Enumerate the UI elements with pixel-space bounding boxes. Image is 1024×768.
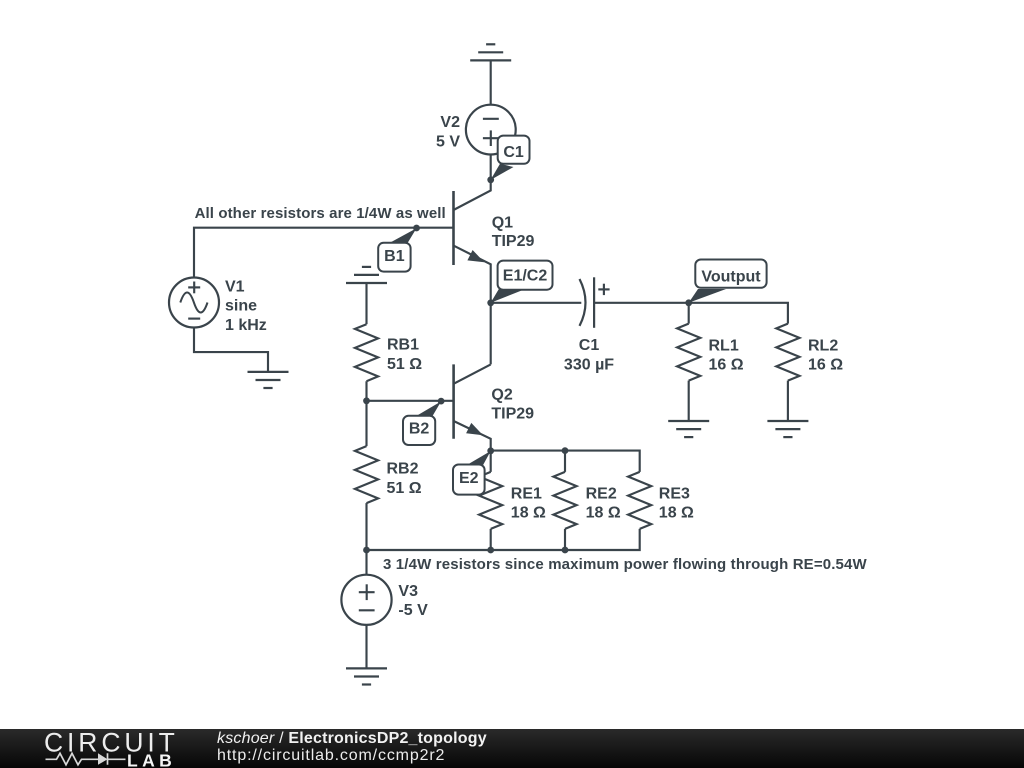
svg-text:3 1/4W resistors since maximum: 3 1/4W resistors since maximum power flo… <box>383 556 868 573</box>
svg-text:330 µF: 330 µF <box>564 356 614 373</box>
svg-text:RB1: RB1 <box>387 337 419 354</box>
svg-text:1 kHz: 1 kHz <box>225 317 267 334</box>
svg-text:RE3: RE3 <box>659 485 690 502</box>
svg-text:16 Ω: 16 Ω <box>709 357 744 374</box>
svg-text:LAB: LAB <box>127 751 176 768</box>
svg-text:Q2: Q2 <box>491 386 512 403</box>
svg-text:16 Ω: 16 Ω <box>808 357 843 374</box>
svg-text:C1: C1 <box>579 337 600 354</box>
svg-text:18 Ω: 18 Ω <box>586 505 621 522</box>
svg-text:sine: sine <box>225 298 257 315</box>
svg-text:5 V: 5 V <box>436 133 460 150</box>
svg-text:B2: B2 <box>409 421 430 438</box>
svg-text:18 Ω: 18 Ω <box>659 505 694 522</box>
svg-text:B1: B1 <box>384 248 405 265</box>
svg-text:51 Ω: 51 Ω <box>387 356 422 373</box>
svg-text:18 Ω: 18 Ω <box>511 505 546 522</box>
svg-text:E2: E2 <box>459 470 479 487</box>
svg-text:V1: V1 <box>225 279 245 296</box>
svg-text:V3: V3 <box>398 583 418 600</box>
svg-text:All other resistors are 1/4W a: All other resistors are 1/4W as well <box>195 205 446 222</box>
svg-text:RL2: RL2 <box>808 337 838 354</box>
svg-text:RE1: RE1 <box>511 485 542 502</box>
svg-text:C1: C1 <box>503 144 524 161</box>
svg-text:V2: V2 <box>440 114 460 131</box>
svg-text:RB2: RB2 <box>387 461 419 478</box>
svg-text:TIP29: TIP29 <box>492 233 535 250</box>
svg-text:RL1: RL1 <box>709 337 739 354</box>
svg-text:51 Ω: 51 Ω <box>387 480 422 497</box>
svg-text:E1/C2: E1/C2 <box>503 267 548 284</box>
svg-text:Voutput: Voutput <box>701 269 761 286</box>
svg-text:TIP29: TIP29 <box>491 406 534 423</box>
svg-text:-5 V: -5 V <box>398 602 428 619</box>
svg-text:RE2: RE2 <box>586 485 617 502</box>
svg-text:Q1: Q1 <box>492 215 513 232</box>
